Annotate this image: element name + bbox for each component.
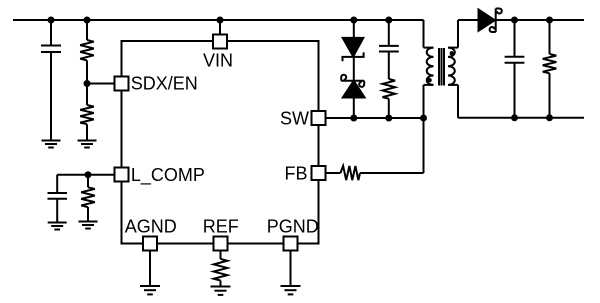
ground PGND — [281, 286, 301, 294]
svg-text:FB: FB — [284, 164, 307, 184]
wire SW rail — [326, 117, 424, 119]
node output cap bottom junction — [511, 114, 518, 121]
pin L_COMP — [115, 168, 129, 182]
node divider mid junction — [84, 80, 91, 87]
wire output top rail — [496, 19, 584, 21]
node output cap top junction — [511, 17, 518, 24]
resistor REF — [214, 251, 228, 287]
pin SDX/EN — [115, 77, 129, 91]
node snubber SW junction — [385, 115, 392, 122]
resistor L_COMP — [81, 175, 95, 222]
resistor divider upper — [80, 20, 94, 84]
pin AGND — [143, 237, 157, 251]
ground divider — [78, 141, 97, 148]
wire divider to SDX/EN — [87, 83, 115, 85]
diode zener clamp D1 — [343, 20, 364, 81]
capacitor L_COMP cap — [48, 175, 68, 223]
svg-text:SDX/EN: SDX/EN — [131, 74, 198, 94]
node clamp SW junction — [350, 115, 357, 122]
pin SW — [312, 111, 326, 125]
wire VIN lead — [219, 20, 221, 34]
resistor FB — [340, 166, 360, 180]
resistor output load — [543, 20, 557, 118]
ground L_COMP resistor — [79, 222, 98, 229]
pin PGND — [284, 237, 298, 251]
node primary phase dot — [427, 78, 431, 82]
capacitor input bulk cap — [41, 20, 61, 141]
ground REF — [211, 287, 231, 295]
pin VIN — [213, 35, 227, 49]
transformer T1 core — [439, 48, 444, 86]
ground L_COMP cap — [48, 223, 67, 230]
node snubber branch junction — [385, 17, 392, 24]
svg-text:PGND: PGND — [267, 217, 319, 237]
pin REF — [214, 237, 228, 251]
svg-text:SW: SW — [280, 109, 309, 129]
node input cap junction — [48, 17, 55, 24]
wire AGND lead — [149, 251, 151, 287]
ground input cap — [42, 141, 61, 148]
resistor snubber — [382, 79, 395, 118]
ground AGND — [140, 286, 160, 294]
node VIN junction — [217, 17, 224, 24]
capacitor output — [505, 20, 525, 118]
wire L_COMP net — [57, 174, 114, 176]
node clamp branch junction — [350, 17, 357, 24]
wire output bottom rail — [458, 117, 584, 119]
node primary FB junction — [420, 115, 427, 122]
pin FB — [312, 166, 326, 180]
wire secondary to diode — [458, 19, 479, 21]
wire FB lead — [326, 172, 341, 174]
node divider top junction — [84, 17, 91, 24]
transformer T1 secondary — [448, 20, 458, 118]
wire PGND lead — [290, 251, 292, 287]
node secondary phase dot — [450, 51, 454, 55]
node L_COMP junction — [85, 171, 92, 178]
capacitor snubber — [379, 20, 399, 79]
diode schottky clamp D2 — [341, 75, 364, 118]
node output res top junction — [546, 17, 553, 24]
wire FB to SW node — [360, 118, 424, 173]
svg-text:AGND: AGND — [125, 217, 177, 237]
wire top input rail — [13, 19, 424, 21]
resistor divider lower — [80, 84, 94, 141]
svg-text:L_COMP: L_COMP — [131, 165, 205, 186]
svg-text:REF: REF — [203, 217, 239, 237]
node output res bottom junction — [546, 114, 553, 121]
transformer T1 primary — [424, 20, 434, 118]
diode schottky output D3 — [479, 9, 502, 33]
svg-text:VIN: VIN — [203, 51, 233, 71]
IC U1 body — [122, 41, 319, 244]
